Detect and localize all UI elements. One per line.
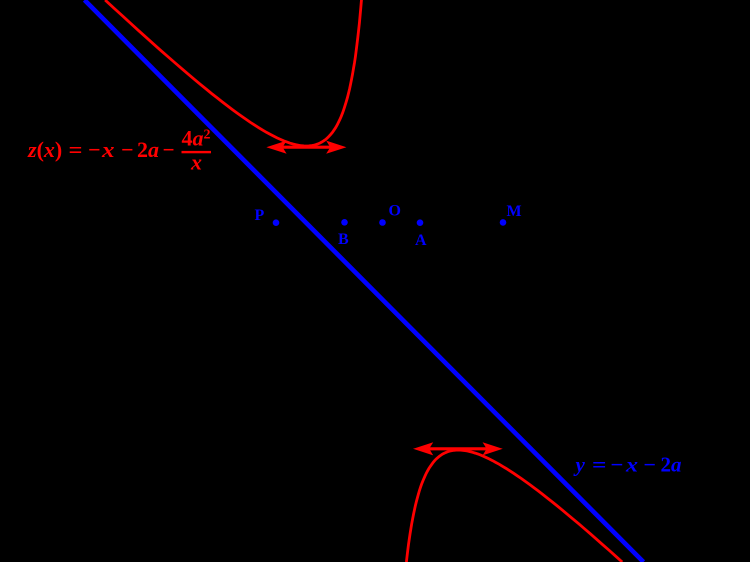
svg-text:M: M [507, 203, 522, 220]
svg-text:x: x [190, 150, 202, 175]
label y = -x - 2a [573, 453, 682, 477]
svg-text:−: − [163, 137, 175, 162]
formula z(x) = -x - 2a - 4a^2/x [27, 126, 211, 175]
point A [417, 219, 424, 226]
svg-text:=: = [592, 453, 607, 477]
svg-text:x: x [101, 137, 115, 162]
svg-text:−: − [88, 137, 101, 162]
svg-text:2a: 2a [137, 137, 159, 162]
point B [341, 219, 348, 226]
svg-text:z(x): z(x) [27, 137, 62, 162]
curve z(x) lower branch [406, 450, 622, 562]
curve z(x) upper branch [105, 0, 361, 146]
svg-text:x: x [625, 453, 638, 477]
svg-text:=: = [69, 137, 83, 162]
svg-text:B: B [338, 231, 349, 248]
tangent arrow at maximum [415, 443, 502, 454]
point M [500, 219, 507, 226]
svg-text:2a: 2a [661, 453, 682, 477]
line y=-x-2a [85, 0, 644, 562]
tangent arrow at minimum [268, 142, 345, 153]
svg-text:A: A [415, 232, 427, 249]
svg-text:−: − [611, 453, 624, 477]
point O [379, 219, 386, 226]
svg-text:−: − [121, 137, 134, 162]
svg-text:P: P [255, 207, 265, 224]
point P [273, 219, 280, 226]
svg-text:−: − [644, 453, 657, 477]
svg-text:O: O [389, 203, 401, 220]
